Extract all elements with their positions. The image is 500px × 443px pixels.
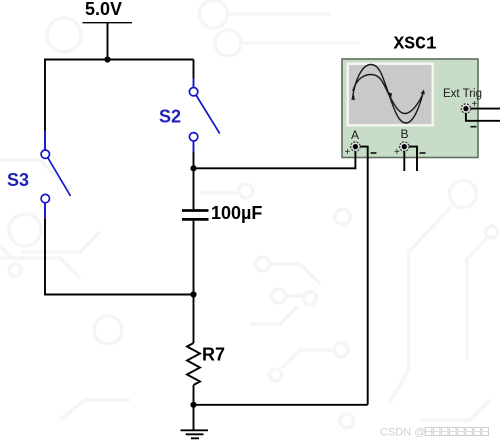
wire S2 bottom to node: [193, 141, 195, 152]
wire resistor bottom to node: [193, 385, 195, 405]
switch S3: [41, 150, 70, 203]
wire top rail horizontal: [45, 59, 194, 61]
svg-text:A: A: [351, 128, 359, 142]
waveform end arrows: [351, 95, 355, 100]
node junction R7 bottom / ground: [190, 402, 196, 408]
wire bottom horizontal to scope A-: [194, 404, 368, 406]
wire scope B+ stub: [403, 151, 405, 171]
node junction vcc rail: [104, 56, 110, 62]
switch S2: [189, 88, 219, 142]
scope terminal A: [351, 142, 360, 151]
resistor R7 zigzag: [187, 343, 200, 385]
vcc 5.0V supply bar: [83, 22, 133, 24]
wire capacitor bottom to node: [193, 221, 195, 295]
wire vcc to top rail: [107, 23, 109, 60]
wire scope A- vertical: [367, 158, 369, 405]
wire scope B- stub: [409, 147, 417, 171]
node junction cap bottom: [190, 291, 196, 297]
wire scope A+ down-left to cap node: [194, 151, 356, 168]
wire S3 bottom: [44, 203, 46, 219]
svg-text:B: B: [401, 127, 409, 141]
wire ground stub: [193, 405, 195, 431]
node junction S2/scopeA/cap: [190, 165, 196, 171]
svg-text:+: +: [394, 147, 400, 158]
wire node to capacitor top: [193, 168, 195, 209]
capacitor C 100uF: [182, 209, 209, 212]
svg-text:R7: R7: [202, 345, 225, 365]
svg-text:+: +: [472, 99, 478, 110]
scope terminal Ext Trig: [461, 104, 470, 113]
svg-text:S3: S3: [7, 170, 29, 190]
svg-text:5.0V: 5.0V: [85, 0, 122, 19]
svg-text:S2: S2: [159, 107, 181, 127]
scope waveform trace small: [353, 75, 424, 114]
svg-text:XSC1: XSC1: [394, 35, 437, 55]
wire scope A- upper segment: [360, 147, 368, 159]
wire ext trig - to edge: [466, 113, 500, 121]
svg-text:CSDN @: CSDN @: [380, 427, 425, 439]
wire ext trig + to edge: [471, 108, 500, 110]
wire node to resistor top: [193, 295, 195, 344]
watermark cjk blocks: [425, 428, 488, 436]
wire right branch down to S2: [193, 60, 195, 79]
svg-text:100µF: 100µF: [211, 203, 262, 223]
ground symbol: [181, 430, 209, 438]
svg-text:+: +: [345, 147, 351, 158]
scope screen: [347, 63, 435, 127]
wire left branch down to S3: [44, 59, 46, 132]
scope waveform trace big: [353, 65, 424, 124]
scope terminal B: [400, 142, 409, 151]
oscilloscope XSC1 body: [342, 59, 478, 158]
